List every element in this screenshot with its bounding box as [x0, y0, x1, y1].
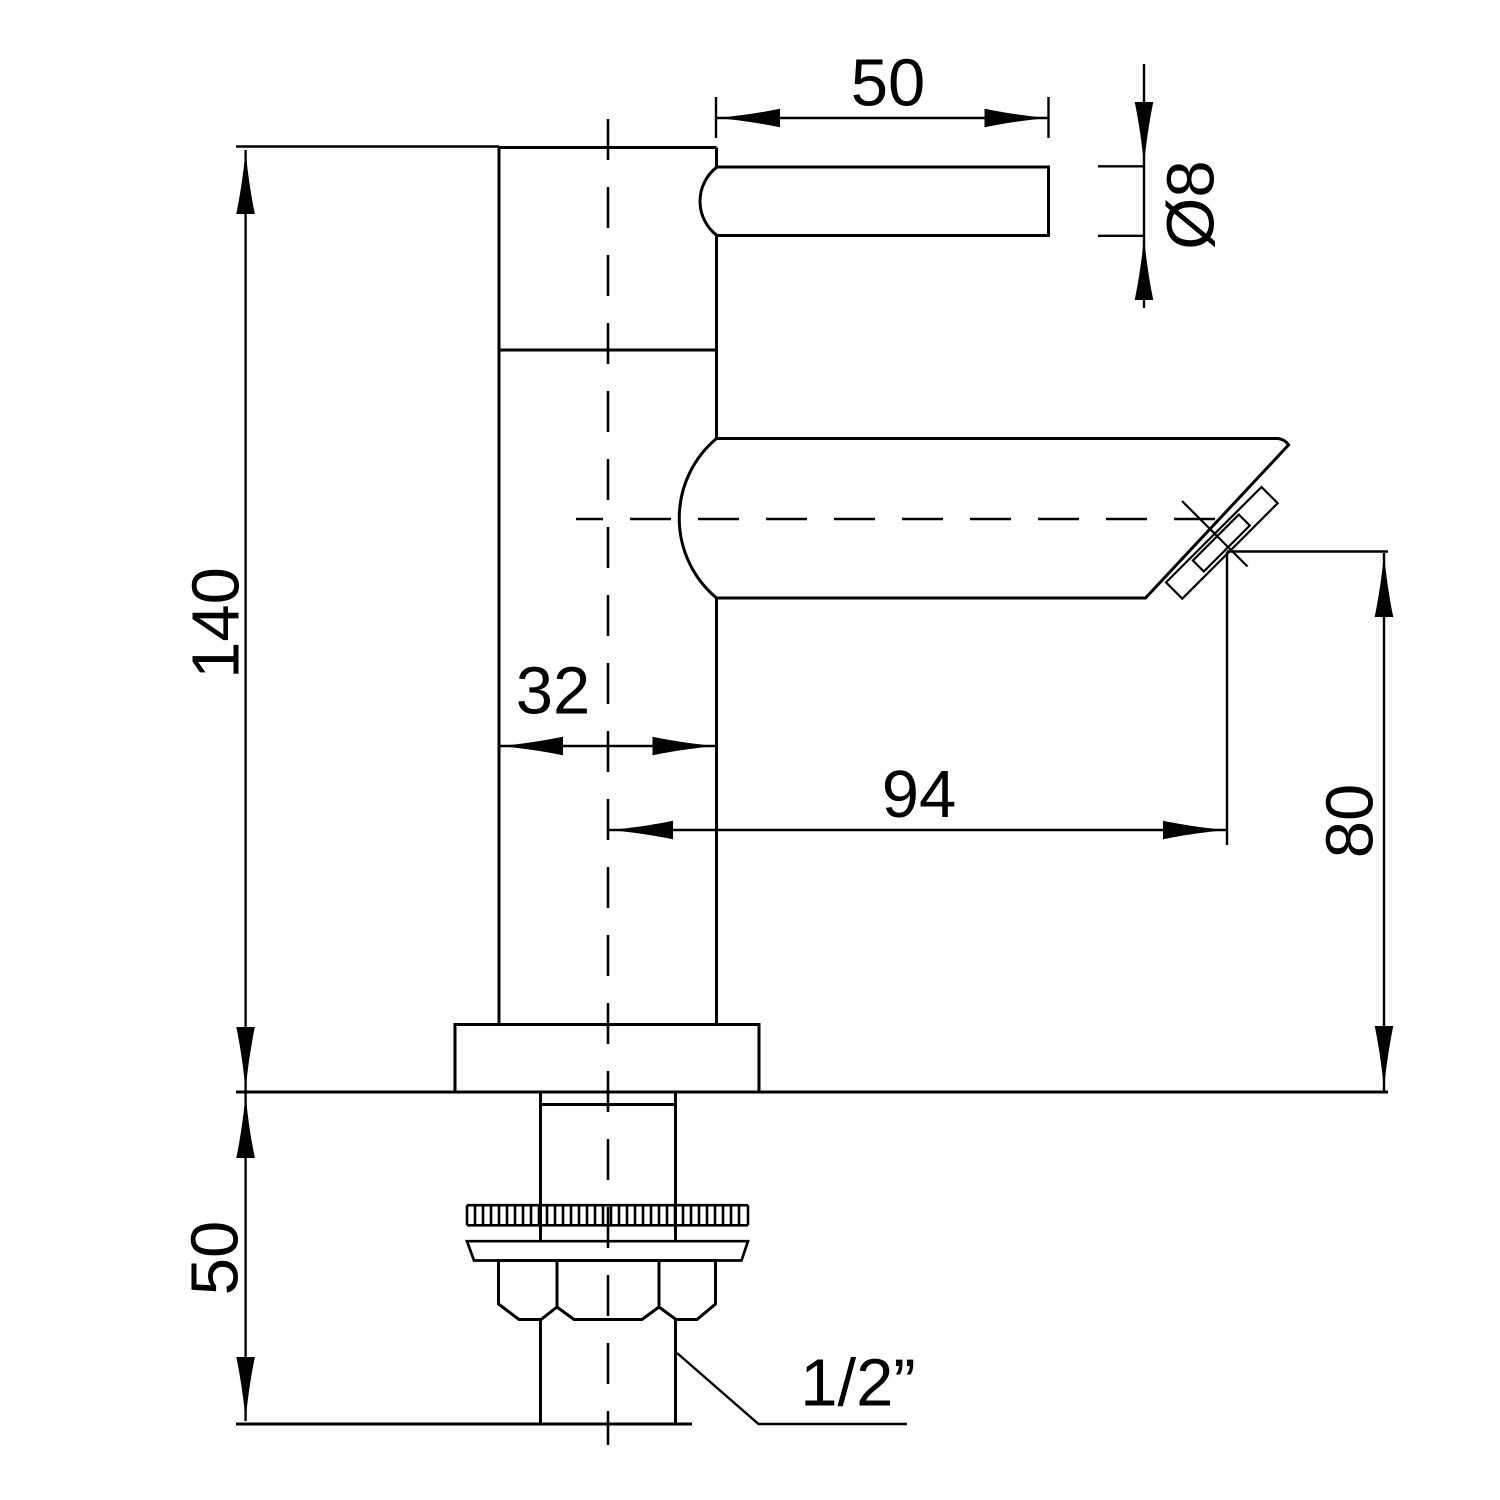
faucet body column outline	[499, 148, 717, 1025]
dimension Ø8 line with arrows	[1143, 64, 1145, 308]
dimension 50 (top) line with arrows	[716, 117, 1049, 119]
svg-text:32: 32	[516, 653, 591, 728]
dimension 80 line with arrows	[1383, 553, 1385, 1092]
handle (lever) outline	[700, 167, 1049, 236]
dimension text 80	[1312, 784, 1387, 859]
dimension text 140	[178, 567, 253, 679]
dimension Ø8 extension ticks	[1098, 165, 1144, 167]
spout horizontal centerline	[576, 518, 1215, 521]
svg-text:80: 80	[1312, 784, 1387, 859]
threaded shank	[539, 1092, 542, 1241]
dimension 50 (bottom) line with arrows	[244, 1092, 246, 1421]
shank bottom line	[236, 1423, 692, 1426]
svg-text:50: 50	[177, 1221, 252, 1296]
dimension 80 extension lines	[1227, 550, 1388, 552]
dimension 94 line with arrows	[609, 829, 1227, 831]
dimension 32 line with arrows	[499, 745, 717, 747]
body joint line	[499, 349, 717, 352]
hex nut	[499, 1261, 716, 1320]
aerator axis centerline (perpendicular to face)	[1182, 501, 1248, 567]
aerator tip (inner insert)	[1193, 515, 1250, 572]
dimension 140 line with arrows	[244, 150, 246, 1092]
dimension 140 extension line (top)	[236, 145, 499, 147]
mounting surface line	[236, 1091, 1388, 1094]
knurled locknut ring	[467, 1204, 748, 1207]
aerator housing (outer ring) on spout face	[1166, 487, 1278, 599]
svg-text:1/2”: 1/2”	[800, 1345, 915, 1420]
dimension text Ø8	[1153, 160, 1228, 249]
dimension text 50 (bottom)	[177, 1221, 252, 1296]
svg-text:140: 140	[178, 567, 253, 679]
svg-text:94: 94	[882, 757, 957, 832]
washer	[467, 1241, 748, 1260]
svg-text:50: 50	[851, 45, 926, 120]
svg-text:Ø8: Ø8	[1153, 160, 1228, 249]
shank neck line	[541, 1103, 676, 1106]
dimension 50 (top) extension ticks	[715, 97, 717, 138]
vertical centerline	[607, 119, 610, 1445]
spout outline	[717, 439, 1289, 599]
base flange	[455, 1025, 759, 1093]
leader line for 1/2” thread	[677, 1353, 907, 1424]
